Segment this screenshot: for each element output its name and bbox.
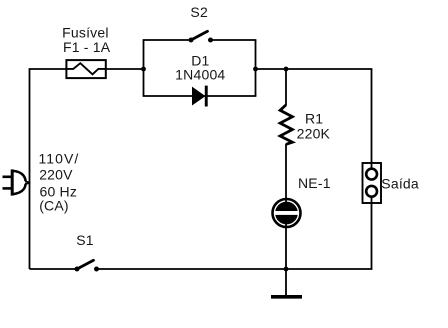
wire: right vertical (output column) bbox=[371, 69, 373, 269]
connector Saída (output) bbox=[363, 163, 382, 203]
wire: D1 branch bbox=[143, 95, 257, 97]
wire: left vertical of S2/D1 loop bbox=[143, 40, 145, 96]
AC plug bbox=[3, 169, 31, 195]
label D1 1N4004 bbox=[175, 52, 225, 82]
wire: R1/NE-1 column upper segment bbox=[285, 69, 287, 105]
svg-text:220K: 220K bbox=[297, 126, 331, 142]
junction: node B (right of S2/D1 loop) bbox=[253, 67, 258, 72]
label 110V/220V 60 Hz (CA) bbox=[39, 150, 80, 213]
label R1 220K bbox=[297, 110, 331, 141]
junction: bottom node (NE-1 / ground) bbox=[284, 267, 289, 272]
wire: main horizontal node B to right vertical bbox=[256, 68, 373, 70]
wire: right vertical of S2/D1 loop bbox=[255, 40, 257, 96]
wire: top horizontal from plug column to node A bbox=[29, 68, 144, 70]
wire: bottom left segment to S1 bbox=[30, 268, 78, 270]
svg-text:Fusível: Fusível bbox=[62, 25, 109, 41]
svg-text:NE-1: NE-1 bbox=[298, 175, 331, 191]
neon lamp NE-1 bbox=[273, 199, 301, 227]
wire: R1/NE-1 column lower segment bbox=[285, 144, 287, 269]
junction: node C (R1 tap on main wire) bbox=[284, 67, 289, 72]
svg-text:1N4004: 1N4004 bbox=[175, 67, 225, 83]
svg-text:S2: S2 bbox=[190, 4, 208, 20]
switch S1 bbox=[75, 260, 100, 271]
wire: S2 branch right segment bbox=[211, 39, 257, 41]
ground bbox=[271, 269, 302, 297]
junction: node A (left of S2/D1 loop) bbox=[141, 67, 146, 72]
switch S2 bbox=[189, 31, 214, 42]
fuse F1 bbox=[66, 60, 105, 78]
wire: bottom right segment from S1 to right vertical bbox=[97, 268, 373, 270]
svg-text:F1 - 1A: F1 - 1A bbox=[63, 39, 111, 55]
label Fusível F1 - 1A bbox=[62, 25, 111, 56]
resistor R1 bbox=[280, 105, 292, 144]
svg-text:Saída: Saída bbox=[381, 175, 419, 191]
svg-text:110V/: 110V/ bbox=[39, 150, 80, 166]
wire: S2 branch left segment bbox=[143, 39, 191, 41]
diode D1 bbox=[193, 86, 208, 107]
svg-text:220V: 220V bbox=[39, 166, 73, 182]
wire: left vertical (plug column) bbox=[29, 69, 31, 269]
svg-text:S1: S1 bbox=[76, 232, 94, 248]
svg-text:(CA): (CA) bbox=[39, 197, 69, 213]
svg-text:R1: R1 bbox=[305, 110, 323, 126]
